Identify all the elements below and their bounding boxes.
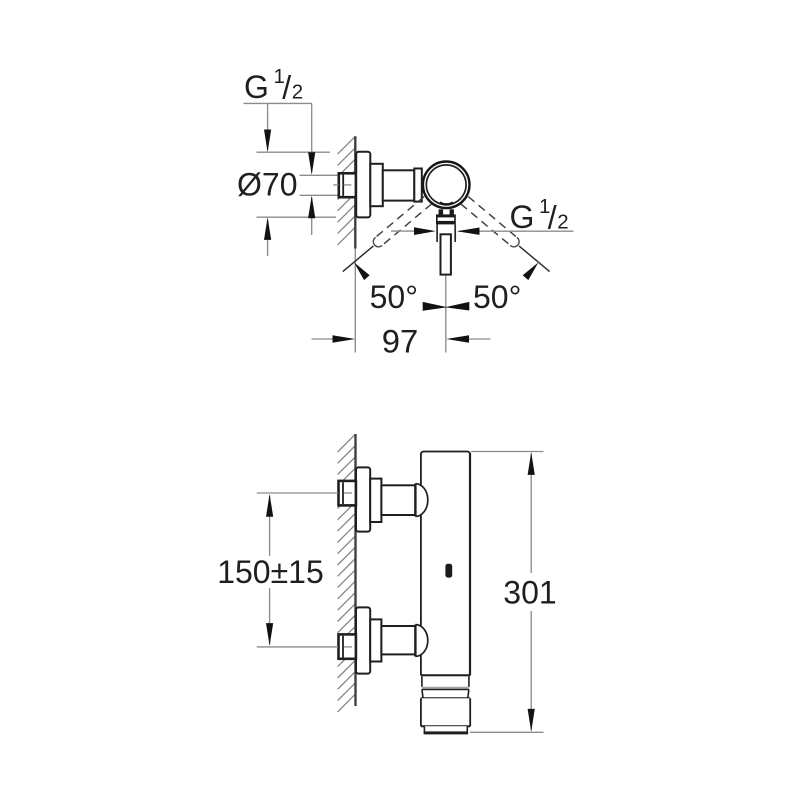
right swung-handle edge (upper dashed) xyxy=(468,197,517,238)
svg-text:97: 97 xyxy=(382,323,418,360)
bottom connection hex nut xyxy=(339,634,356,658)
O70 dimension vertical (lower tail + arrow) xyxy=(264,217,271,256)
text O70 xyxy=(237,167,297,203)
top connection spherical cap xyxy=(415,484,427,517)
nipple centerline (top view) xyxy=(333,184,351,186)
text G 1/2 (top) xyxy=(244,65,303,106)
301 dim extension line bottom xyxy=(470,731,544,733)
knob outer circle (top view) xyxy=(423,162,470,209)
left swung-handle end cap xyxy=(373,237,382,246)
outlet collar (G1/2 fitting) xyxy=(436,214,456,224)
aerator ring 2 xyxy=(421,689,470,698)
150 dim extension line top xyxy=(257,492,338,494)
right swung-handle end cap xyxy=(510,237,519,246)
text G 1/2 (right) xyxy=(510,195,569,236)
301 dim extension line top xyxy=(471,451,544,453)
left swung-handle edge (upper dashed) xyxy=(376,197,425,238)
301 dim line lower + arrow xyxy=(528,611,535,732)
wall hatching (top view) xyxy=(338,136,356,245)
svg-text:/: / xyxy=(282,70,291,106)
left swung-handle edge (lower dashed) xyxy=(382,204,432,246)
escutcheon flange (top view) xyxy=(356,152,370,218)
top connection step xyxy=(370,479,381,522)
bottom connection nipple cylinder xyxy=(381,626,415,654)
extension line to 97 dim (wall, top view) xyxy=(354,249,356,353)
svg-text:G: G xyxy=(510,199,535,235)
wall hatching (bottom view) xyxy=(338,434,356,712)
aerator ring 1 xyxy=(422,676,469,689)
G1/2 right leader arrow xyxy=(457,228,480,235)
body step cone (top view) xyxy=(370,164,383,206)
150 dim line upper + arrow xyxy=(266,494,273,556)
supply nipple hex nut (top view) xyxy=(339,173,356,197)
svg-text:50°: 50° xyxy=(473,279,521,315)
hose nipple shaft xyxy=(441,234,451,274)
text 97 xyxy=(382,323,418,360)
G1/2 top dimension vertical (upper tail + arrow) xyxy=(308,103,315,174)
bottom connection escutcheon xyxy=(356,607,370,673)
97 dimension line right + arrow xyxy=(446,335,490,342)
svg-text:Ø70: Ø70 xyxy=(237,167,297,203)
hub arc detail inside knob xyxy=(440,203,454,205)
outlet cup xyxy=(421,698,470,726)
handle neck marks xyxy=(439,209,454,214)
svg-text:50°: 50° xyxy=(370,279,418,315)
text 50 deg right xyxy=(473,279,521,315)
right 50-deg solid extension line xyxy=(519,246,550,272)
bottom connection step xyxy=(370,619,381,661)
body right edge emphasis xyxy=(469,453,471,675)
text 150+-15 xyxy=(217,554,324,590)
O70 extension line top xyxy=(257,151,331,153)
handle centerline (below shaft) xyxy=(445,276,447,353)
svg-text:/: / xyxy=(548,200,557,236)
left arc arrow xyxy=(354,262,370,280)
G1/2 right leader line xyxy=(459,230,574,232)
O70 extension line bottom xyxy=(257,216,337,218)
top connection nipple cylinder xyxy=(381,485,415,515)
bottom connection spherical cap xyxy=(415,625,427,657)
faucet body (side view) xyxy=(421,452,470,676)
wall line (top view) xyxy=(354,136,356,248)
O70 dimension vertical (upper tail + arrow) xyxy=(264,103,271,152)
G1/2 nipple extension line bottom xyxy=(300,194,339,196)
top connection escutcheon xyxy=(356,467,370,531)
temperature mark on body xyxy=(445,564,452,578)
right arc arrow xyxy=(523,262,539,280)
text 301 xyxy=(503,575,556,611)
150 dim extension line bottom xyxy=(257,646,338,648)
outlet bottom cap xyxy=(424,726,469,734)
301 dim line upper + arrow xyxy=(528,452,535,573)
150 dim line lower + arrow xyxy=(266,588,273,646)
center bowtie arrows (50-deg dims) xyxy=(423,302,470,311)
G1/2 top dimension vertical (lower tail + arrow) xyxy=(308,196,315,236)
G1/2 nipple extension line top xyxy=(300,174,339,176)
svg-text:2: 2 xyxy=(292,81,303,104)
right swung-handle edge (lower dashed) xyxy=(461,204,511,246)
body cylinder (top view) xyxy=(383,170,415,200)
text 50 deg left xyxy=(370,279,418,315)
valve interface plate (top view) xyxy=(414,169,422,202)
top connection hex nut xyxy=(339,481,356,506)
bottom nipple centerline xyxy=(344,646,352,648)
top nipple centerline xyxy=(344,492,352,494)
left 50-deg solid extension line xyxy=(343,246,374,272)
svg-text:G: G xyxy=(244,69,269,105)
body bottom section line xyxy=(421,674,470,676)
svg-text:301: 301 xyxy=(503,575,556,611)
leader line under top G1/2 label xyxy=(244,102,312,104)
97 dimension line left + arrow xyxy=(312,335,356,342)
knob inner circle xyxy=(426,165,466,205)
outlet pointer arrow (left of collar) xyxy=(391,227,436,235)
svg-text:2: 2 xyxy=(557,211,568,234)
wall line (bottom view) xyxy=(354,434,356,706)
svg-text:150±15: 150±15 xyxy=(217,554,324,590)
outlet tube sides xyxy=(437,224,455,242)
